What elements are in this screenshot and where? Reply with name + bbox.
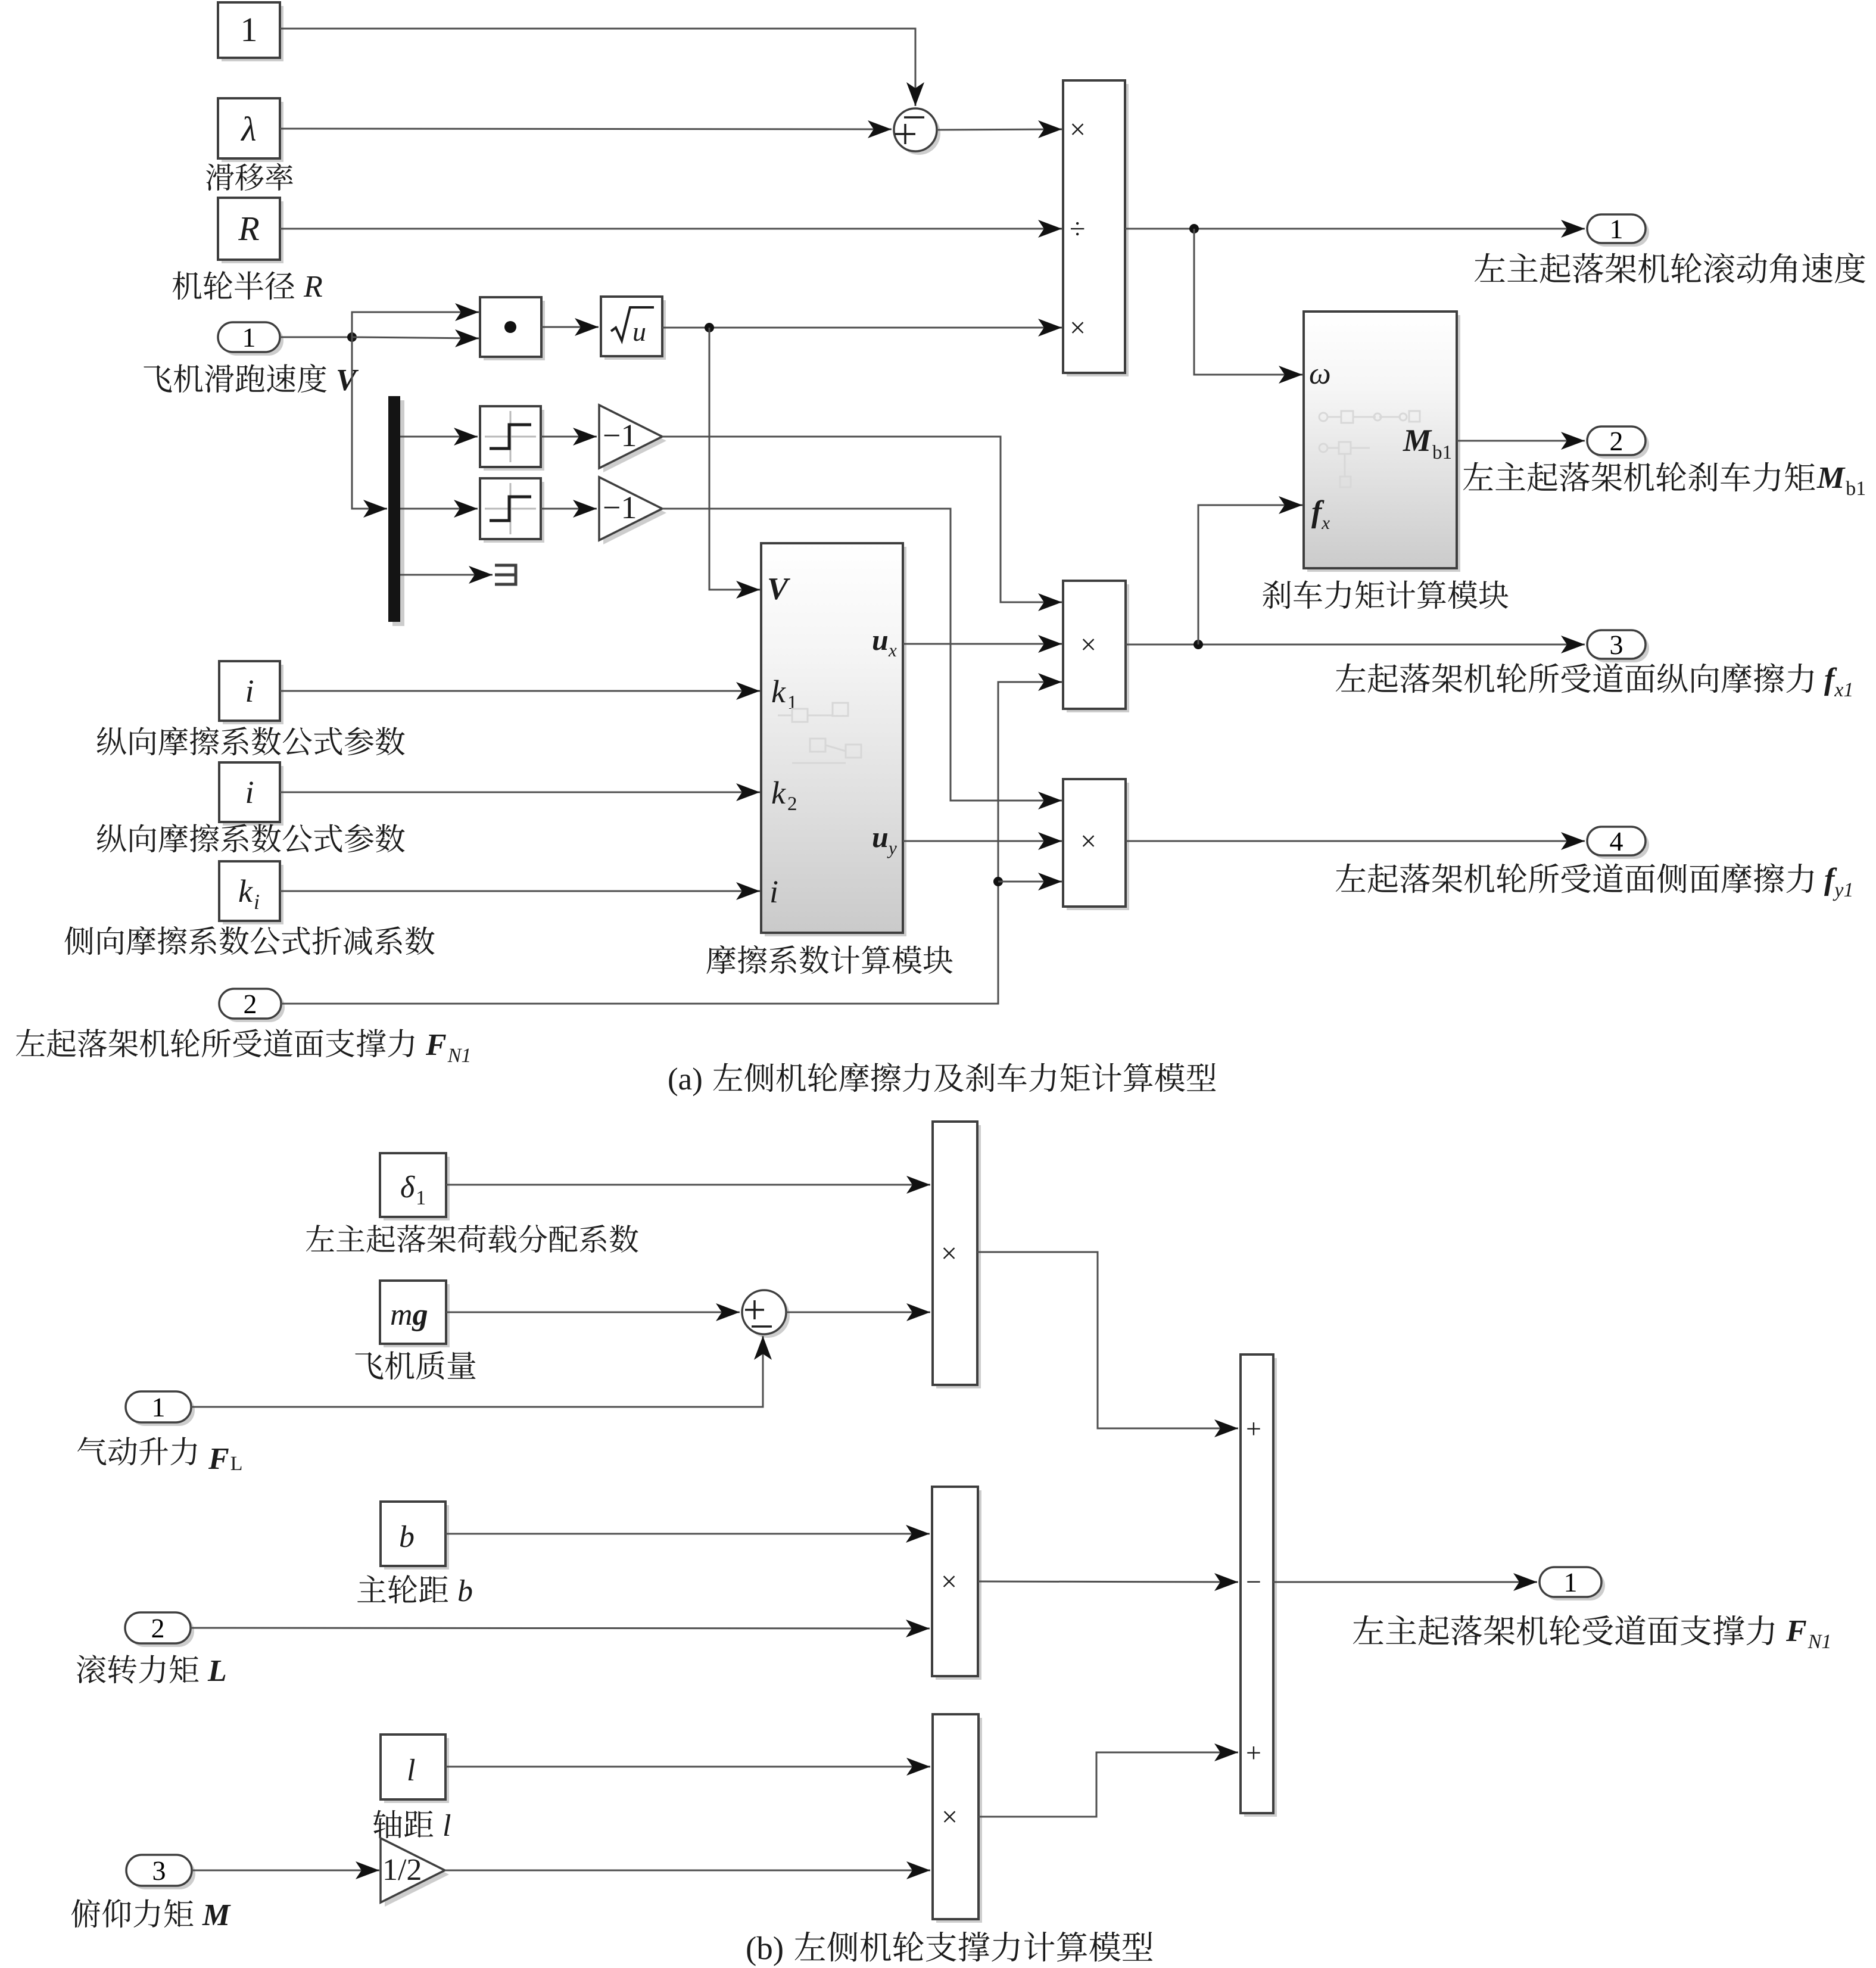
caption (b) 左侧机轮支撑力计算模型 <box>747 1932 1152 1966</box>
wire pitch moment to gain G3 <box>192 1861 379 1879</box>
wire ki to subsystem i <box>280 882 760 900</box>
wire product P3 to outport4 <box>1126 832 1585 850</box>
wire saturation1 to gain G1 <box>541 428 597 446</box>
label 机轮半径 R <box>173 271 322 300</box>
label 主轮距 b <box>357 1575 472 1603</box>
label 左主起落架机轮受道面支撑力 F_N1 <box>1353 1615 1830 1648</box>
label 摩擦系数计算模块 <box>706 945 952 974</box>
constant block "k_i" <box>219 861 283 924</box>
gain G2 (-1) <box>599 477 666 544</box>
wire inport2 up to product P2 input3 <box>281 673 1062 1004</box>
label 飞机滑跑速度 V <box>144 364 359 393</box>
outport oval 4 <box>1587 827 1649 859</box>
constant block "1" (unity) <box>218 2 283 61</box>
product Pb1 (delta1 * (mg - F_L)) <box>933 1122 981 1388</box>
label 左起落架机轮所受道面侧面摩擦力 f_y1 <box>1336 863 1852 901</box>
constant block "mg" (aircraft weight) <box>380 1281 450 1347</box>
subsystem: brake torque calc (刹车力矩计算模块) <box>1304 312 1460 572</box>
wire M_b1 to outport2 <box>1457 432 1585 450</box>
outport oval 1 (support force) <box>1540 1567 1605 1600</box>
outport oval 2 <box>1587 426 1649 459</box>
wire junction down to friction subsystem V input <box>709 328 760 599</box>
inport oval 2 (support force) <box>219 989 285 1022</box>
wire dot-product to sqrt block <box>541 318 599 336</box>
gain G1 (-1) <box>599 405 666 472</box>
wire sum S1 to product A <box>937 120 1062 138</box>
label 左主起落架荷载分配系数 <box>306 1225 638 1253</box>
wire inport1 to junction <box>280 332 357 342</box>
wire gain G1 to product P2 input1 <box>662 437 1062 611</box>
wire sqrt to product A times input <box>662 319 1062 337</box>
wire i1 to subsystem k1 <box>280 682 760 700</box>
demux bar <box>388 396 404 626</box>
sum S1 (+/-) <box>894 108 940 155</box>
label 左主起落架机轮滚动角速度 <box>1475 253 1865 283</box>
wire mg to sum S2 <box>446 1303 740 1321</box>
saturation block 1 <box>480 406 544 471</box>
wire branch up to brake subsystem f_x input <box>1198 496 1302 644</box>
sum S2 (+/-) <box>742 1290 790 1338</box>
wire product P2 to outport3 <box>1126 636 1585 653</box>
wire constant-1 to sum S1 <box>280 29 924 106</box>
wire demux to saturation1 <box>400 428 478 446</box>
wire adder to outport1 <box>1273 1573 1537 1591</box>
sqrt(u) block <box>601 297 666 360</box>
product P3 (lateral friction) <box>1063 779 1129 910</box>
wire junction to dot-product input2 <box>352 329 479 347</box>
wire product Pb2 to adder minus input <box>978 1573 1238 1591</box>
product P2 (longitudinal friction) <box>1063 581 1129 712</box>
constant block "i" #2 <box>219 762 283 826</box>
wire demux to saturation2 <box>400 500 478 518</box>
wire u_x to product P2 input2 <box>903 635 1062 653</box>
gain G3 (1/2) <box>381 1838 449 1907</box>
label 滚转力矩 L <box>77 1655 226 1683</box>
wire roll moment to product Pb2 input2 <box>191 1620 930 1637</box>
product Pb3 (l * M/2) <box>933 1714 982 1923</box>
wire gain G2 to product P3 input1 <box>662 509 1062 809</box>
constant block "delta1" (load share) <box>380 1153 450 1220</box>
constant block "lambda" (slip ratio) <box>218 98 283 162</box>
constant block "b" (main wheel track) <box>381 1502 449 1570</box>
inport oval 1 (ground speed V) <box>218 322 283 356</box>
outport oval 3 <box>1587 630 1649 662</box>
label 滑移率 <box>206 163 293 191</box>
label 俯仰力矩 M <box>71 1899 231 1927</box>
label 侧向摩擦系数公式折减系数 <box>64 926 434 955</box>
outport oval 1 <box>1587 214 1649 247</box>
wire junction down to demux <box>352 337 387 518</box>
wire product Pb3 to adder plus input <box>978 1743 1238 1817</box>
constant block "R" (wheel radius) <box>218 198 283 263</box>
dot-product block <box>480 297 545 360</box>
wire junction to dot-product input1 <box>352 303 479 337</box>
saturation block 2 <box>480 478 544 543</box>
label 左起落架机轮所受道面支撑力 F_N1 <box>16 1029 469 1062</box>
adder block (+ - +) <box>1241 1354 1277 1817</box>
constant block "l" (wheel base) <box>381 1735 449 1803</box>
terminator <box>495 565 516 584</box>
label 刹车力矩计算模块 <box>1263 580 1508 609</box>
wire product Pb1 to adder plus input <box>977 1252 1238 1437</box>
wire product A to outport1 <box>1125 220 1585 238</box>
wire delta1 to product Pb1 input1 <box>446 1176 930 1194</box>
junction and wire to product P3 input3 <box>993 873 1062 890</box>
inport oval 2 (roll moment) <box>125 1612 194 1647</box>
wire gain G3 to product Pb3 input2 <box>445 1861 930 1879</box>
product A (times-divide-times) <box>1063 80 1129 376</box>
subsystem: friction coefficient calc (摩擦系数计算模块) <box>761 543 906 936</box>
inport oval 3 (pitch moment) <box>126 1855 195 1889</box>
constant block "i" #1 <box>219 661 283 724</box>
label 轴距 l <box>373 1810 450 1838</box>
product Pb2 (b * L) <box>932 1487 981 1680</box>
label 左起落架机轮所受道面纵向摩擦力 f_x1 <box>1336 663 1852 696</box>
wire l to product Pb3 input1 <box>445 1758 930 1776</box>
wire u_y to product P3 input2 <box>903 832 1062 850</box>
wire sum S2 to product Pb1 input2 <box>786 1303 930 1321</box>
wire b to product Pb2 input1 <box>445 1525 930 1543</box>
wire lambda to sum S1 <box>280 120 892 138</box>
label 飞机质量 <box>355 1351 475 1380</box>
inport oval 1 (lift force) <box>126 1391 195 1426</box>
wire i2 to subsystem k2 <box>280 783 760 801</box>
caption (a) 左侧机轮摩擦力及刹车力矩计算模型 <box>669 1063 1216 1096</box>
wire branch down to brake subsystem omega input <box>1194 229 1302 384</box>
label 纵向摩擦系数公式参数 #2 <box>97 824 405 852</box>
label 左主起落架机轮刹车力矩M_b1 <box>1463 462 1865 495</box>
wire saturation2 to gain G2 <box>541 500 597 518</box>
wire lift F_L up into sum S2 minus <box>191 1336 772 1407</box>
label 纵向摩擦系数公式参数 #1 <box>97 727 405 755</box>
wire demux to terminator <box>400 566 493 584</box>
label 气动升力 F_L <box>77 1437 241 1470</box>
wire R to product A divide input <box>280 220 1062 238</box>
